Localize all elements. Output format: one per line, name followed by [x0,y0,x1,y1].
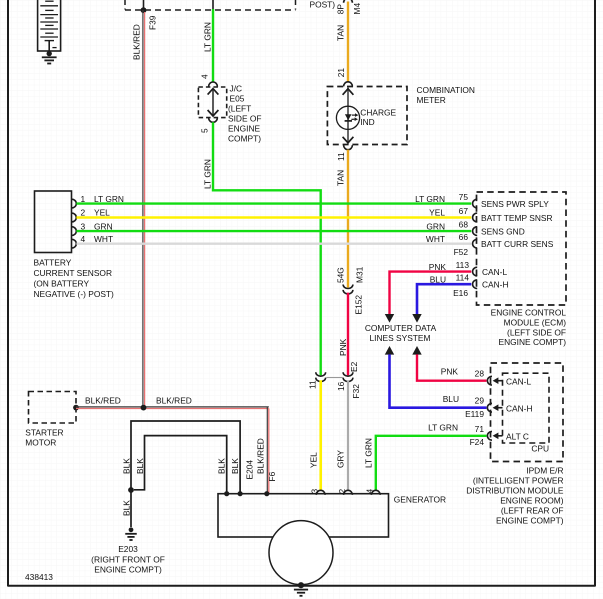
generator pin 4 [371,490,380,495]
svg-text:(LEFT REAR OF: (LEFT REAR OF [501,505,564,515]
svg-text:114: 114 [456,273,470,283]
wire TAN from connector M4 pin 8P down to combination meter pin 21 [344,0,353,3]
svg-text:STARTER: STARTER [25,428,63,438]
svg-text:NEGATIVE (-) POST): NEGATIVE (-) POST) [34,289,115,299]
svg-text:E16: E16 [453,288,468,298]
generator box [218,494,389,537]
svg-text:8P: 8P [335,4,345,15]
IPDM CPU inner dashed box [503,373,550,443]
svg-text:4: 4 [365,489,375,494]
svg-text:28: 28 [475,369,485,379]
wire PNK from data lines (up arrow) to IPDM pin 28 [412,346,421,355]
wire LT GRN y=203.6 sensor to ECM [76,202,471,204]
inline connector F32 / E2 : pins 11 and 16 [316,372,326,376]
node: BLK/RED junction below F39 wire [141,405,147,411]
svg-text:TAN: TAN [335,25,345,41]
svg-text:F52: F52 [454,247,469,257]
page border [7,0,9,587]
sensor pin 4 [72,239,77,248]
IPDM pin ALT C [487,431,492,440]
svg-text:4: 4 [81,234,86,244]
IPDM E/R outer dashed box [491,363,564,462]
wire LT GRN from generator pin 4 to IPDM pin 71 [376,436,487,490]
svg-text:WHT: WHT [426,234,445,244]
generator armature circle [269,521,333,585]
svg-text:MODULE (ECM): MODULE (ECM) [504,318,567,328]
svg-text:M31: M31 [354,266,364,283]
svg-text:E203: E203 [118,544,138,554]
battery ground [47,51,52,56]
svg-text:CAN-L: CAN-L [482,267,507,277]
svg-text:YEL: YEL [429,208,445,218]
svg-text:COMPUTER DATA: COMPUTER DATA [365,323,437,333]
svg-text:11: 11 [336,152,346,161]
svg-text:LT GRN: LT GRN [363,438,373,468]
svg-text:(LEFT: (LEFT [228,104,251,114]
IPDM pin CAN-H [487,403,492,412]
wire LT GRN from E05 pin 5 down, right, to inline connector pin 11 [213,122,321,375]
svg-text:ENGINE COMPT): ENGINE COMPT) [499,337,567,347]
wire TAN from meter pin 11 down to connector E152 [347,150,349,288]
svg-text:E204: E204 [244,460,254,480]
node F39 junction [143,0,145,10]
svg-text:BLK/RED: BLK/RED [255,438,265,474]
svg-text:SENS PWR SPLY: SENS PWR SPLY [481,199,549,209]
svg-text:3: 3 [310,489,320,494]
wire BLK inner loop [134,436,227,494]
charge indicator LED D1 [336,106,359,129]
svg-text:COMBINATION: COMBINATION [417,85,475,95]
wire WHT y=243.7 sensor to ECM [76,242,471,244]
svg-text:CPU: CPU [531,444,549,454]
svg-text:5: 5 [199,128,209,133]
svg-text:75: 75 [459,192,469,202]
svg-text:BLK: BLK [216,458,226,474]
svg-text:J/C: J/C [230,84,243,94]
svg-text:71: 71 [475,424,485,434]
svg-text:GRN: GRN [426,221,445,231]
svg-text:BLU: BLU [430,274,446,284]
wire GRY from pin 16 to generator pin 2 [347,380,349,490]
svg-text:BATT CURR SENS: BATT CURR SENS [481,239,554,249]
pin 11 of combination meter [344,145,353,150]
svg-text:GENERATOR: GENERATOR [394,495,446,505]
battery (top left, cut off at top) [38,0,61,51]
svg-text:YEL: YEL [308,452,318,468]
dashed box bottom edge: battery (-) post box (cut off) [124,0,126,10]
svg-text:LINES SYSTEM: LINES SYSTEM [370,333,431,343]
wire BLK to ground E203 [130,490,132,527]
connector link line [327,377,343,379]
svg-text:2: 2 [337,489,347,494]
J/C E05 junction connector [198,87,226,118]
svg-text:(RIGHT FRONT OF: (RIGHT FRONT OF [91,554,165,564]
svg-text:MOTOR: MOTOR [25,438,56,448]
wire PNK from ECM pin 113 to computer data lines (down arrow) [390,272,472,315]
node: generator BLK terminals and F6 [224,491,229,496]
svg-text:3: 3 [81,221,86,231]
svg-text:BLK: BLK [121,458,131,474]
svg-text:PNK: PNK [429,262,447,272]
svg-text:M4: M4 [352,3,362,15]
wire BLK/RED vertical to starter junction [142,10,144,408]
svg-text:COMPT): COMPT) [228,134,261,144]
wire GRN y=231.1 sensor to ECM [76,230,471,232]
svg-text:(INTELLIGENT POWER: (INTELLIGENT POWER [473,475,564,485]
svg-text:LT GRN: LT GRN [415,194,445,204]
svg-text:LT GRN: LT GRN [428,423,458,433]
inline connector M31 / E152 pin 54G [343,285,353,289]
svg-text:CURRENT SENSOR: CURRENT SENSOR [34,268,113,278]
svg-text:16: 16 [336,381,346,391]
svg-text:SIDE OF: SIDE OF [228,114,262,124]
svg-text:F32: F32 [351,384,361,399]
ECM pin 66 BATT CURR SENS [473,239,478,248]
svg-text:BLK: BLK [135,458,145,474]
generator pin 3 [316,490,325,495]
svg-text:BLK: BLK [230,458,240,474]
ECM pin 113 CAN-L [473,267,478,276]
svg-text:ENGINE CONTROL: ENGINE CONTROL [491,308,567,318]
meter internal wire [336,106,359,129]
sensor pin 3 [72,227,77,236]
svg-text:METER: METER [417,95,446,105]
ECM pin 114 CAN-H [473,280,478,289]
svg-text:CAN-H: CAN-H [506,404,533,414]
svg-text:4: 4 [199,74,209,79]
svg-text:ENGINE COMPT): ENGINE COMPT) [496,515,564,525]
svg-text:E2: E2 [349,361,359,372]
svg-text:21: 21 [336,68,346,78]
wire YEL from pin 11 to generator pin 3 [319,380,322,490]
svg-text:BLK/RED: BLK/RED [85,396,121,406]
svg-text:11: 11 [307,380,317,389]
svg-text:438413: 438413 [25,572,53,582]
wire BLK/RED starter to F39 junction to F6 [76,406,269,408]
svg-text:BLK/RED: BLK/RED [156,396,192,406]
svg-text:BATT TEMP SNSR: BATT TEMP SNSR [481,213,553,223]
wire BLU from ECM pin 114 to computer data lines (down arrow) [417,284,471,314]
svg-text:CAN-H: CAN-H [482,280,509,290]
svg-text:WHT: WHT [94,234,113,244]
wire PNK from E152 down to connector F32 pin 16 [347,293,349,376]
sensor pin 1 [72,199,77,208]
sensor pin 2 [72,213,77,222]
svg-text:66: 66 [459,232,469,242]
svg-text:E152: E152 [353,295,363,315]
svg-text:F24: F24 [470,437,485,447]
wire BLU from data lines (up arrow) to IPDM pin 29 [385,346,394,355]
svg-text:LT GRN: LT GRN [202,159,212,189]
svg-text:PNK: PNK [338,338,348,356]
wire LT GRN from post box to J/C E05 pin 4 [212,0,214,10]
ECM pin 68 SENS GND [473,227,478,236]
svg-text:LT GRN: LT GRN [202,22,212,52]
combination meter dashed box [327,87,407,145]
svg-text:1: 1 [81,194,86,204]
svg-text:IPDM E/R: IPDM E/R [526,465,563,475]
ground E203 [129,527,134,532]
node: starter motor junction [73,405,79,411]
svg-text:(LEFT SIDE OF: (LEFT SIDE OF [507,327,566,337]
svg-text:PNK: PNK [441,367,459,377]
svg-text:(ON BATTERY: (ON BATTERY [34,279,90,289]
node: BLK junction [128,487,134,493]
svg-text:GRY: GRY [336,450,346,468]
ECM dashed box [477,192,567,305]
ECM pin 67 BATT TEMP SNSR [473,213,478,222]
generator pin 2 [344,490,353,495]
ECM pin 75 SENS PWR SPLY [473,199,478,208]
svg-text:TAN: TAN [335,170,345,186]
svg-text:CAN-L: CAN-L [506,377,531,387]
svg-text:68: 68 [459,220,469,230]
svg-text:BLU: BLU [443,394,459,404]
svg-text:ENGINE: ENGINE [228,124,261,134]
svg-text:ENGINE ROOM): ENGINE ROOM) [500,495,563,505]
svg-text:BLK/RED: BLK/RED [131,24,141,60]
svg-text:113: 113 [456,260,470,270]
svg-text:E05: E05 [230,94,245,104]
pin 5 of J/C E05 [209,118,218,123]
wire BLK outer loop: generator to ground E203 [131,421,240,494]
svg-text:E119: E119 [465,409,484,419]
svg-text:IND: IND [360,117,374,127]
generator ground [298,582,304,588]
svg-text:BLK: BLK [121,500,131,516]
svg-text:F39: F39 [147,15,157,30]
starter motor dashed box [29,392,77,424]
svg-text:BATTERY: BATTERY [34,257,72,267]
svg-text:54G: 54G [335,267,345,283]
svg-text:ALT C: ALT C [506,432,529,442]
svg-text:LT GRN: LT GRN [94,194,124,204]
svg-text:67: 67 [459,206,469,216]
svg-text:POST): POST) [310,0,336,10]
wire YEL y=217.5 sensor to ECM [76,216,471,219]
svg-text:29: 29 [475,396,485,406]
svg-text:DISTRIBUTION MODULE: DISTRIBUTION MODULE [466,485,564,495]
svg-text:GRN: GRN [94,221,113,231]
battery current sensor box [35,191,72,253]
svg-text:ENGINE COMPT): ENGINE COMPT) [94,565,162,575]
svg-text:SENS GND: SENS GND [481,226,525,236]
IPDM pin CAN-L [487,376,492,385]
svg-text:F6: F6 [267,471,277,481]
